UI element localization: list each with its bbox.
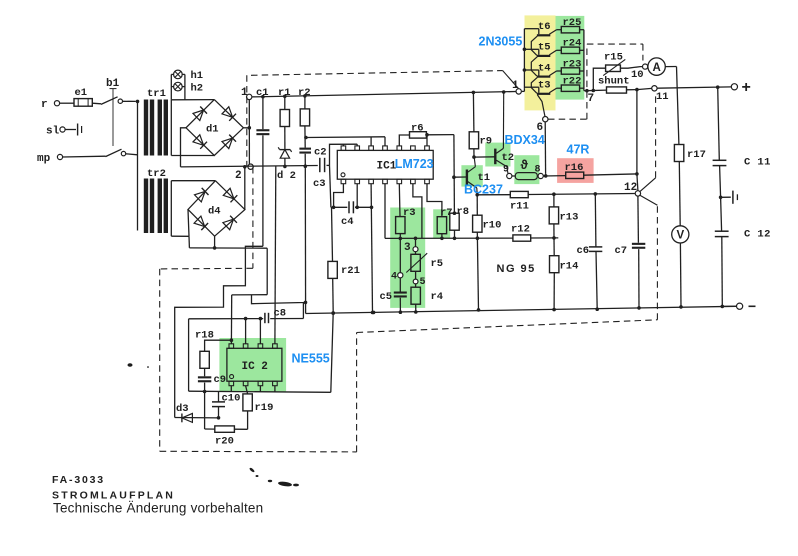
dashed sense line node11 to node12: [655, 96, 657, 178]
highlight green r3 r5 r4 c5 column: [390, 208, 425, 308]
node 10: [631, 64, 648, 81]
resistor r23: [557, 58, 584, 74]
svg-text:tr1: tr1: [147, 88, 166, 100]
wire staircase to board: [232, 248, 306, 304]
bottom bus: [306, 306, 737, 315]
wire tr1 bottom to d1: [171, 155, 214, 157]
svg-text:d3: d3: [176, 403, 189, 415]
wire IC2 bottom pins: [231, 386, 275, 392]
terminal plus: [731, 79, 751, 96]
highlight green resistors r22-r25: [556, 16, 585, 100]
wire pin column to IC2: [230, 295, 232, 344]
wire board top with c8: [189, 303, 304, 319]
lamp h2: [171, 74, 203, 99]
voltmeter V: [672, 226, 689, 243]
svg-text:r2: r2: [298, 87, 311, 99]
label NG 95: [497, 263, 536, 275]
timer IC2 NE555: [227, 344, 330, 386]
wire node6 column: [544, 122, 548, 178]
resistor r9: [469, 91, 492, 159]
svg-text:C 11: C 11: [744, 156, 771, 168]
wire c1 staircase to d3: [175, 246, 263, 417]
svg-text:47R: 47R: [567, 143, 590, 157]
transistor t2 BDX34: [495, 90, 545, 173]
svg-text:r24: r24: [563, 38, 582, 50]
svg-text:r12: r12: [511, 224, 530, 236]
wire r9 to t2 base: [474, 156, 495, 158]
svg-text:4: 4: [391, 272, 397, 283]
bridge rectifier d1: [186, 100, 243, 156]
dashed outline bottom: [160, 450, 357, 453]
highlight green resistor r7: [433, 209, 450, 238]
node 2: [235, 164, 253, 182]
terminal sl: [46, 124, 82, 138]
svg-text:r15: r15: [604, 52, 623, 64]
svg-text:r16: r16: [565, 162, 584, 174]
switch b1 pole 2: [106, 149, 138, 156]
svg-text:10: 10: [631, 69, 644, 81]
transistor t3: [524, 80, 556, 117]
transistor t4: [524, 62, 556, 93]
dashed outline left lower: [159, 269, 161, 451]
potentiometer r5: [406, 252, 443, 273]
wire board left side: [188, 319, 190, 391]
resistor r18: [195, 330, 233, 377]
svg-text:h2: h2: [191, 83, 204, 95]
transistor t5: [524, 42, 556, 76]
svg-text:7: 7: [588, 93, 595, 105]
svg-text:r10: r10: [483, 220, 502, 232]
switch b1 pole 1: [101, 97, 136, 105]
resistor r20: [205, 392, 248, 448]
label FA-3033: [52, 474, 105, 486]
wire ammeter to r17: [665, 67, 679, 145]
svg-text:r11: r11: [510, 201, 529, 213]
svg-text:c3: c3: [313, 178, 326, 190]
wire sense column: [637, 90, 638, 191]
node 12: [624, 182, 641, 196]
highlight green IC2 NE555: [219, 338, 286, 391]
capacitor c9: [198, 374, 226, 393]
transformer tr1: [144, 88, 168, 156]
svg-text:c7: c7: [615, 245, 628, 257]
op-amp IC1 LM723: [337, 146, 433, 184]
capacitor c4: [331, 201, 372, 228]
rail r11 to node 12: [475, 193, 635, 197]
wire board bottom: [189, 391, 331, 392]
svg-text:t3: t3: [538, 80, 551, 92]
wire pin4 to rail: [384, 184, 386, 239]
svg-text:NG 95: NG 95: [497, 263, 536, 275]
lamp h1: [171, 70, 203, 100]
svg-text:sl: sl: [46, 126, 60, 138]
resistor r2: [298, 87, 311, 148]
resistor r24: [557, 38, 584, 54]
node 5: [413, 271, 425, 288]
node 11: [637, 86, 669, 103]
svg-text:r9: r9: [480, 136, 493, 148]
diode d3: [175, 403, 219, 422]
terminal mp: [37, 153, 106, 165]
node 3: [404, 237, 418, 255]
label 2N3055: [479, 34, 523, 48]
svg-text:r25: r25: [563, 17, 582, 29]
svg-text:r17: r17: [687, 149, 706, 161]
highlight green thermal fuse: [514, 155, 539, 184]
svg-text:r: r: [41, 99, 48, 111]
dashed outline right riser: [356, 333, 358, 452]
svg-text:c6: c6: [577, 245, 590, 257]
wire long column from node2 bus to IC2: [274, 166, 277, 344]
resistor r19: [243, 386, 274, 430]
ammeter A: [648, 58, 665, 75]
svg-text:tr2: tr2: [147, 168, 166, 180]
wire voltmeter to bus: [679, 243, 683, 309]
dashed outline right of V: [656, 205, 658, 319]
resistor r7: [427, 184, 453, 240]
svg-text:3: 3: [404, 242, 411, 254]
resistor r17: [674, 145, 706, 226]
svg-text:r22: r22: [563, 76, 582, 88]
capacitor c1: [256, 87, 269, 246]
resistor r13: [549, 192, 578, 239]
capacitor c8: [265, 308, 286, 324]
wire d4 lower link: [189, 236, 267, 248]
resistor r10: [473, 195, 502, 312]
svg-text:t4: t4: [538, 62, 551, 74]
wire node12 sense diagonals: [640, 178, 658, 206]
node 1: [241, 87, 252, 100]
dashed outline left middle: [252, 167, 254, 268]
terminal minus: [722, 303, 755, 309]
wire IC2 pin2 up: [244, 317, 248, 344]
earth symbol: [721, 191, 738, 204]
svg-text:r19: r19: [255, 402, 274, 414]
resistor r1: [278, 87, 291, 150]
resistor r21: [328, 207, 360, 315]
svg-text:A: A: [652, 62, 660, 74]
switch b1 link: [106, 78, 120, 146]
highlight red resistor r16: [557, 158, 594, 183]
resistor r16 47R: [565, 143, 590, 179]
highlight green transistor t2: [485, 143, 510, 167]
svg-text:V: V: [676, 230, 684, 242]
highlight yellow 2N3055 transistor bank: [525, 15, 556, 110]
svg-text:r18: r18: [195, 330, 214, 342]
svg-text:c9: c9: [214, 374, 227, 386]
resistor r4: [411, 284, 443, 314]
wire d4 left corner to tr2: [171, 210, 189, 237]
transistor t1 BC237: [452, 157, 503, 196]
dashed top right link: [587, 44, 643, 60]
svg-text:r3: r3: [403, 207, 416, 219]
ink smudges: [128, 363, 300, 487]
dashed outline under bus: [357, 320, 658, 333]
svg-text:c4: c4: [341, 216, 354, 228]
svg-text:t6: t6: [538, 21, 551, 33]
rail r12: [385, 237, 558, 240]
transformer tr1 secondary wire: [170, 100, 172, 156]
dashed outline top: [251, 71, 503, 76]
svg-text:r23: r23: [563, 58, 582, 70]
dashed node6 link: [548, 44, 587, 119]
resistor r25: [557, 17, 584, 33]
bridge rectifier d4: [188, 181, 245, 237]
capacitor C11: [713, 87, 771, 199]
zener diode d2: [277, 147, 296, 182]
svg-text:11: 11: [656, 91, 669, 103]
terminal r: [41, 99, 74, 111]
svg-text:9: 9: [503, 165, 509, 176]
svg-text:Technische Änderung vorbehalte: Technische Änderung vorbehalten: [53, 501, 263, 516]
wire bank base bus: [522, 29, 526, 92]
bus node1 horizontal: [252, 92, 516, 97]
transformer tr2: [144, 168, 168, 233]
resistor r22: [557, 76, 584, 92]
capacitor c3: [313, 158, 330, 190]
transistor t6: [524, 21, 556, 55]
svg-text:IC 2: IC 2: [242, 361, 268, 373]
node 9: [503, 165, 512, 179]
dashed outline left upper: [246, 75, 248, 166]
svg-text:8: 8: [535, 165, 541, 176]
junction: [136, 100, 140, 104]
svg-text:r14: r14: [560, 261, 579, 273]
wire dashed link to node 1: [503, 71, 519, 89]
transformer primary wire: [137, 101, 139, 230]
svg-text:BDX34: BDX34: [505, 133, 545, 147]
wire d4 right corner up to bus: [243, 165, 247, 210]
thermal fuse: [512, 158, 537, 180]
wire node1 to node2: [248, 100, 250, 164]
wire tr1 top to d1: [171, 99, 214, 101]
wire pin6 down: [413, 184, 422, 239]
svg-text:t5: t5: [538, 42, 551, 54]
svg-text:LM723: LM723: [395, 157, 434, 171]
resistor r15: [593, 52, 642, 91]
svg-text:r4: r4: [431, 291, 444, 303]
wire pin3 down to bottom bus: [370, 184, 375, 315]
svg-text:+: +: [742, 79, 751, 96]
svg-text:r5: r5: [431, 258, 444, 270]
svg-text:c2: c2: [314, 147, 327, 159]
svg-text:5: 5: [420, 277, 426, 288]
svg-text:c8: c8: [274, 308, 287, 320]
svg-text:NE555: NE555: [292, 351, 330, 365]
resistor r11: [510, 191, 529, 212]
resistor r3: [396, 184, 416, 241]
svg-text:c5: c5: [380, 291, 393, 303]
node 7: [584, 89, 594, 105]
wire node8 to r16: [543, 175, 565, 177]
svg-text:r20: r20: [215, 436, 234, 448]
wire IC2 pin3 up: [259, 317, 263, 344]
resistor r8: [450, 206, 469, 240]
svg-text:r8: r8: [457, 206, 470, 218]
wire plus bus: [657, 85, 731, 89]
svg-text:2: 2: [235, 170, 242, 182]
label Technische Aenderung vorbehalten: [53, 501, 263, 516]
svg-text:h1: h1: [191, 70, 204, 82]
svg-text:d1: d1: [206, 124, 219, 136]
shunt resistor: [587, 76, 639, 94]
node 6: [537, 117, 549, 135]
wire pin2 down: [355, 184, 359, 209]
wire d1 right corner to node column: [243, 126, 251, 130]
svg-text:IC1: IC1: [377, 161, 397, 173]
resistor r12: [511, 224, 531, 242]
wire pin1 to c4 node: [332, 184, 344, 209]
svg-text:mp: mp: [37, 153, 51, 165]
wire bank collector bus: [583, 30, 585, 91]
svg-text:e1: e1: [75, 87, 88, 99]
wire c3 up to IC1 pins: [330, 144, 358, 165]
wire d1 left corner down: [181, 128, 187, 167]
svg-text:c1: c1: [256, 87, 269, 99]
svg-text:t2: t2: [502, 152, 515, 164]
capacitor c2: [299, 147, 326, 169]
node 1 right: [512, 80, 521, 94]
svg-text:d4: d4: [208, 206, 221, 218]
fuse e1: [74, 87, 92, 106]
svg-text:C 12: C 12: [744, 228, 771, 240]
wire tr2 top to d4: [171, 180, 215, 182]
bus node2 horizontal: [181, 166, 318, 167]
wire: [92, 102, 101, 105]
svg-text:c10: c10: [222, 393, 241, 405]
wire r6 to r8 vertical: [453, 135, 456, 214]
resistor r14: [550, 238, 579, 312]
wire r16 to sense column: [584, 172, 639, 176]
svg-text:r6: r6: [411, 123, 424, 135]
wire d4 bottom corner down: [213, 236, 217, 250]
svg-text:ϑ: ϑ: [521, 158, 529, 172]
svg-text:b1: b1: [106, 78, 120, 90]
capacitor c10: [212, 392, 240, 420]
wire c3 down to r21: [330, 165, 331, 207]
svg-text:r13: r13: [560, 212, 579, 224]
svg-text:2N3055: 2N3055: [479, 34, 523, 48]
node 8: [535, 165, 544, 179]
wire IC1 top rail A: [304, 136, 385, 146]
svg-text:r21: r21: [341, 265, 360, 277]
highlight green transistor t1: [461, 165, 482, 186]
dashed outline step: [160, 267, 253, 270]
svg-text:FA-3033: FA-3033: [52, 474, 105, 486]
svg-text:12: 12: [624, 182, 637, 194]
resistor r6: [399, 123, 454, 146]
svg-text:6: 6: [537, 122, 544, 134]
svg-text:shunt: shunt: [598, 76, 630, 88]
svg-text:d 2: d 2: [277, 170, 296, 182]
transformer tr2 secondary wire: [170, 181, 172, 237]
label STROMLAUFPLAN: [52, 490, 175, 502]
wire c2 column down to bottom bus: [304, 166, 308, 313]
svg-text:r1: r1: [278, 87, 291, 99]
capacitor C12: [715, 197, 771, 308]
wire board right side: [331, 313, 333, 392]
capacitor c5: [380, 278, 407, 314]
capacitor c7: [615, 196, 646, 310]
node 4: [391, 238, 403, 282]
capacitor c6: [577, 192, 603, 311]
